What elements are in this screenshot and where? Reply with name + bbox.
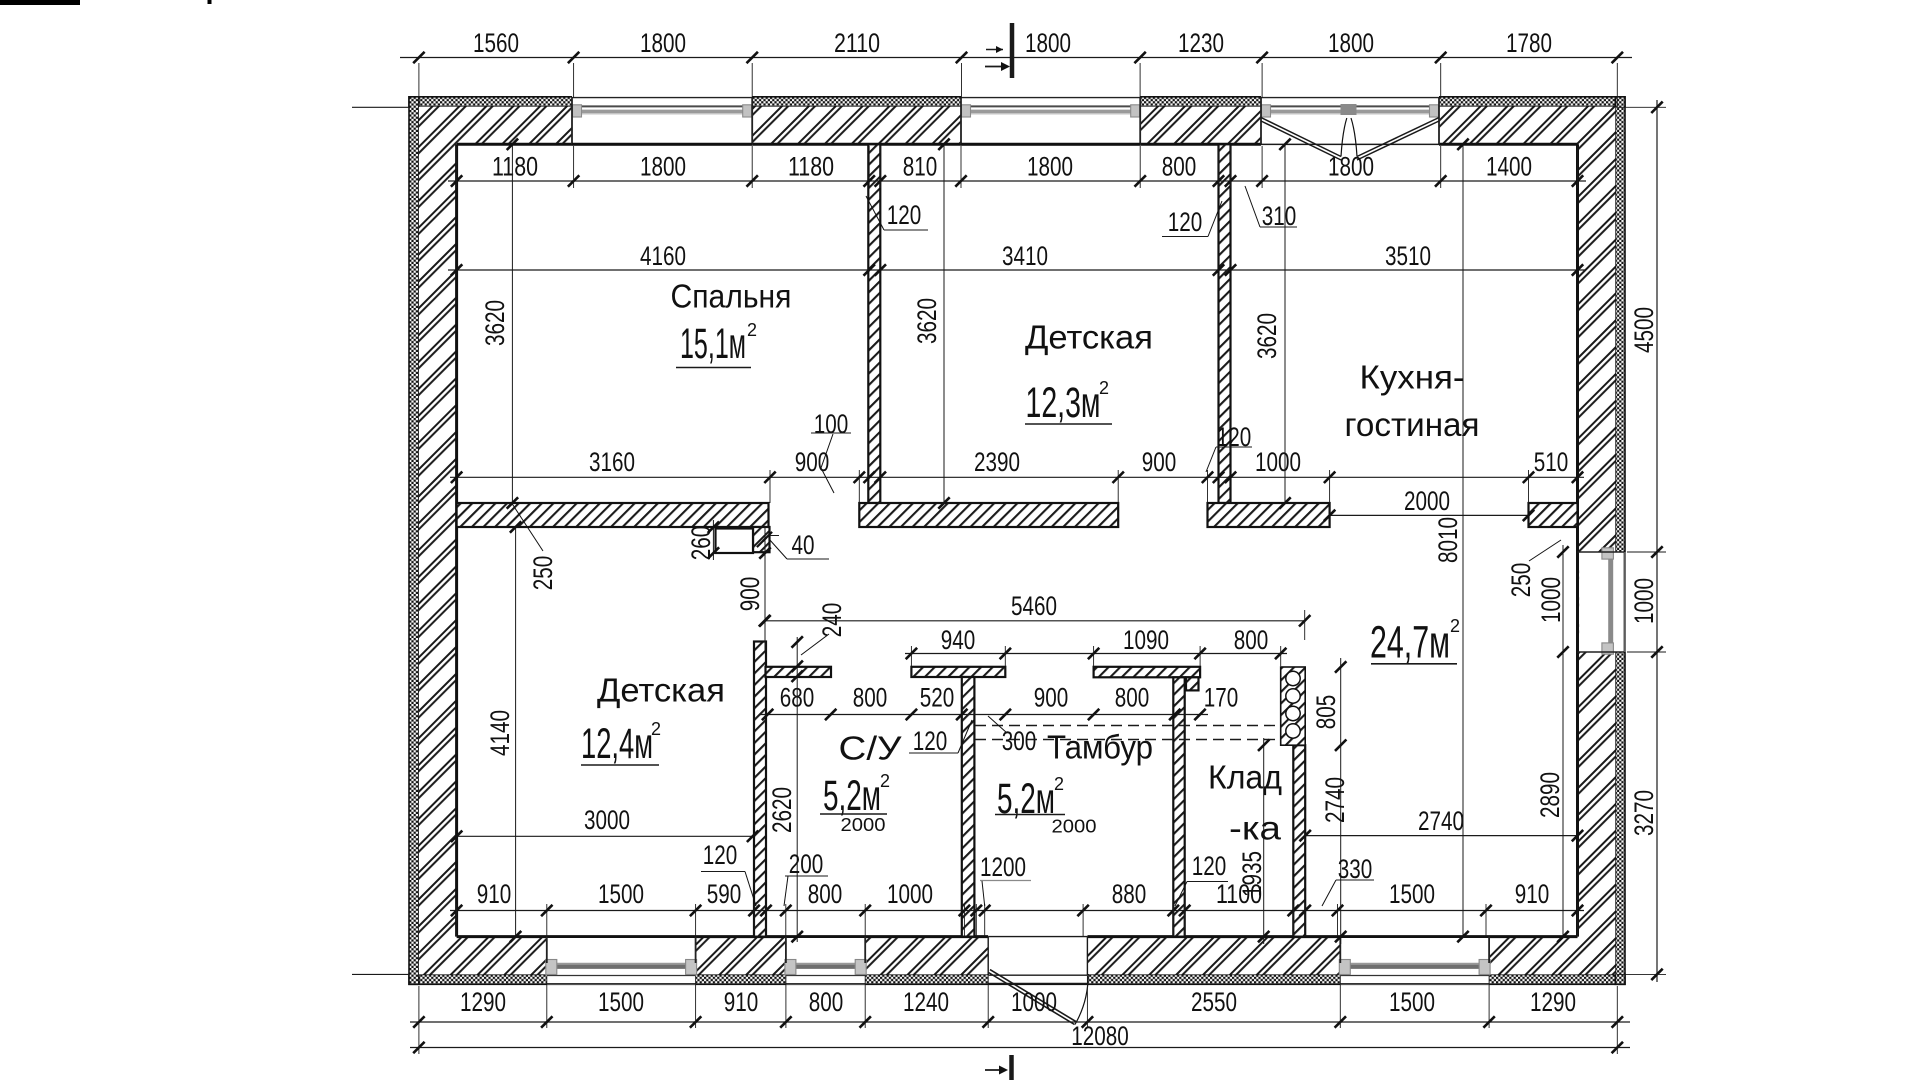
wall: WC top right (940) <box>911 667 1005 677</box>
window: right wall (1000) <box>1579 552 1625 652</box>
svg-text:2890: 2890 <box>1535 772 1565 818</box>
svg-text:900: 900 <box>1142 447 1177 477</box>
wall: vestibule top (1090) <box>1094 667 1201 678</box>
svg-text:810: 810 <box>903 152 938 182</box>
svg-text:гостиная: гостиная <box>1345 406 1480 443</box>
dimension: 3000 child room 2 <box>457 835 753 837</box>
svg-text:1180: 1180 <box>492 152 538 182</box>
wall: below bedroom (H1a) <box>457 503 769 527</box>
svg-text:2740: 2740 <box>1418 806 1464 836</box>
wall: storeroom/kitchen (120) <box>1293 745 1305 936</box>
svg-text:5,2м: 5,2м <box>823 772 881 820</box>
dimension: 2740 kitchen horizontal <box>1305 835 1577 837</box>
svg-text:880: 880 <box>1112 879 1147 909</box>
window: bottom small (800) <box>786 938 865 985</box>
svg-text:2: 2 <box>747 320 757 340</box>
svg-text:1180: 1180 <box>788 152 834 182</box>
svg-text:Тамбур: Тамбур <box>1047 729 1153 766</box>
wall: WC top left (680) <box>766 667 832 677</box>
svg-text:1000: 1000 <box>1255 447 1301 477</box>
duct dashed lines through vestibule <box>975 725 1281 727</box>
svg-text:12080: 12080 <box>1071 1021 1129 1051</box>
left side reference lines <box>352 106 409 108</box>
right side extension lines <box>1617 106 1666 108</box>
wall: hall/kitchen (H1c) <box>1208 503 1330 527</box>
vertical dim: 2620 WC and 240 top piece <box>796 637 798 942</box>
svg-text:2: 2 <box>651 719 661 739</box>
exterior wall: outer insulation band (stipple) <box>409 97 1625 107</box>
svg-text:2: 2 <box>1099 378 1109 398</box>
window: bedroom top (1800) <box>572 96 752 146</box>
svg-text:С/У: С/У <box>839 730 903 767</box>
svg-text:Кухня-: Кухня- <box>1360 359 1465 396</box>
svg-text:2740: 2740 <box>1320 777 1350 823</box>
wall: child room/kitchen (120) <box>1219 144 1231 503</box>
svg-text:3510: 3510 <box>1385 241 1431 271</box>
svg-text:1240: 1240 <box>903 987 949 1017</box>
svg-text:1500: 1500 <box>598 879 644 909</box>
window: child room top (1800) <box>961 96 1140 146</box>
wall stub above corridor door (260) <box>753 527 770 552</box>
svg-text:1000: 1000 <box>1536 577 1566 623</box>
svg-text:2: 2 <box>880 771 890 791</box>
vertical dim: 900 corridor door <box>764 527 766 650</box>
wall: vestibule/storeroom (120) <box>1173 677 1184 936</box>
dimension chain: top row 2 <box>448 180 1586 182</box>
vertical dim: 3620 kitchen <box>1284 144 1286 503</box>
interior face line: right <box>1576 144 1579 936</box>
svg-text:900: 900 <box>795 447 830 477</box>
svg-text:2000: 2000 <box>1404 486 1450 516</box>
svg-text:120: 120 <box>887 200 922 230</box>
svg-text:300: 300 <box>1002 726 1037 756</box>
dimension: 2000 kitchen passage <box>1330 514 1529 516</box>
dimension: overall 12080 <box>410 1047 1630 1049</box>
svg-text:1290: 1290 <box>1530 987 1576 1017</box>
svg-text:4160: 4160 <box>640 241 686 271</box>
svg-text:Детская: Детская <box>597 672 725 709</box>
svg-text:800: 800 <box>1234 625 1269 655</box>
svg-text:Детская: Детская <box>1025 319 1153 356</box>
svg-text:240: 240 <box>817 603 847 638</box>
svg-text:2000: 2000 <box>1052 816 1097 837</box>
vertical dim: 4140 child room 2 <box>515 527 517 937</box>
vertical dim: 3620 child room <box>943 144 945 503</box>
svg-text:4500: 4500 <box>1629 307 1659 353</box>
entrance door opening (1000) bottom <box>988 935 1087 984</box>
dimension chain: top row 3 (room widths) <box>448 269 1586 271</box>
svg-text:8010: 8010 <box>1433 517 1463 563</box>
wall: child2/WC (120) <box>754 642 766 937</box>
svg-text:1400: 1400 <box>1486 152 1532 182</box>
svg-text:2550: 2550 <box>1191 987 1237 1017</box>
svg-text:3000: 3000 <box>584 805 630 835</box>
svg-text:3620: 3620 <box>912 298 942 344</box>
svg-text:24,7м: 24,7м <box>1370 617 1450 668</box>
svg-text:1000: 1000 <box>1629 578 1659 624</box>
svg-text:900: 900 <box>735 577 765 612</box>
vertical dim: window 1000 inner / 2890 <box>1562 545 1564 937</box>
svg-text:120: 120 <box>913 726 948 756</box>
svg-text:1090: 1090 <box>1123 625 1169 655</box>
svg-text:1800: 1800 <box>1025 28 1071 58</box>
svg-text:1800: 1800 <box>640 152 686 182</box>
dimension chain: bottom row 1 <box>410 1021 1630 1023</box>
svg-text:40: 40 <box>792 530 815 560</box>
interior face line: left <box>455 144 458 936</box>
svg-text:200: 200 <box>789 849 824 879</box>
svg-text:940: 940 <box>941 625 976 655</box>
dimension row: WC interior (y=714.5) <box>760 714 1208 716</box>
svg-text:800: 800 <box>1115 683 1150 713</box>
window: child room 2 bottom (1500) <box>547 938 696 985</box>
svg-text:1560: 1560 <box>473 28 519 58</box>
svg-text:3410: 3410 <box>1002 241 1048 271</box>
svg-text:12,4м: 12,4м <box>581 720 653 768</box>
svg-text:910: 910 <box>1515 879 1550 909</box>
svg-text:3620: 3620 <box>480 300 510 346</box>
svg-text:2620: 2620 <box>767 787 797 833</box>
svg-text:1500: 1500 <box>598 987 644 1017</box>
svg-text:910: 910 <box>724 987 759 1017</box>
svg-text:805: 805 <box>1311 695 1341 730</box>
svg-text:15,1м: 15,1м <box>680 320 746 368</box>
svg-text:120: 120 <box>1192 851 1227 881</box>
section mark top <box>1010 23 1015 78</box>
dimension: 5460 corridor <box>764 620 1305 622</box>
svg-text:2110: 2110 <box>834 28 880 58</box>
svg-text:1000: 1000 <box>887 879 933 909</box>
svg-text:1800: 1800 <box>640 28 686 58</box>
svg-text:1935: 1935 <box>1237 851 1267 897</box>
wall: bedroom/child room (120) <box>868 144 880 503</box>
svg-text:5460: 5460 <box>1011 591 1057 621</box>
svg-text:1800: 1800 <box>1328 28 1374 58</box>
balcony door center post <box>1341 104 1357 115</box>
svg-text:120: 120 <box>703 840 738 870</box>
svg-text:3270: 3270 <box>1629 790 1659 836</box>
vertical dim: 805 / 2740 boiler line <box>1340 658 1342 944</box>
svg-text:1000: 1000 <box>1011 987 1057 1017</box>
dimension chain: mid row (y=477) <box>450 476 1584 478</box>
balcony door leaves <box>1261 118 1341 157</box>
svg-text:100: 100 <box>814 409 849 439</box>
svg-text:170: 170 <box>1204 683 1239 713</box>
window: kitchen bottom (1500) <box>1340 938 1489 985</box>
svg-text:-ка: -ка <box>1229 810 1282 847</box>
dimension chain: bottom interior row (y=910.5) <box>450 910 1584 912</box>
page artifact: small tick top <box>208 0 212 4</box>
svg-text:1290: 1290 <box>460 987 506 1017</box>
svg-text:910: 910 <box>477 879 512 909</box>
svg-text:1800: 1800 <box>1328 152 1374 182</box>
svg-text:900: 900 <box>1034 683 1069 713</box>
svg-text:250: 250 <box>1506 563 1536 598</box>
svg-text:800: 800 <box>809 987 844 1017</box>
svg-text:1780: 1780 <box>1506 28 1552 58</box>
vertical dim chain right: 4500/1000/3270 <box>1656 100 1658 982</box>
svg-text:1200: 1200 <box>980 852 1026 882</box>
interior face line: top <box>457 143 1578 146</box>
interior face line: bottom <box>457 935 989 938</box>
svg-text:1230: 1230 <box>1178 28 1224 58</box>
dimension row: WC/vestibule top walls (y=653.5) <box>905 653 1287 655</box>
exterior wall: structural ring with masonry hatch <box>419 107 1615 975</box>
section mark bottom <box>1009 1055 1014 1080</box>
ventilation niche box at corridor <box>716 529 754 554</box>
svg-text:1500: 1500 <box>1389 987 1435 1017</box>
svg-text:250: 250 <box>528 556 558 591</box>
svg-text:2: 2 <box>1054 774 1064 794</box>
svg-text:4140: 4140 <box>485 710 515 756</box>
wall: kitchen stub right (H1d) <box>1529 503 1578 527</box>
svg-text:5,2м: 5,2м <box>997 775 1055 823</box>
dimension chain: top row 1 (overall) <box>400 57 1632 59</box>
entrance door leaf <box>989 973 1075 1025</box>
vertical dim: 1935 storeroom <box>1263 738 1265 944</box>
svg-text:120: 120 <box>1168 207 1203 237</box>
svg-text:Клад: Клад <box>1208 759 1282 796</box>
svg-text:3160: 3160 <box>589 447 635 477</box>
balcony door: kitchen top (1800) <box>1261 96 1439 146</box>
svg-text:520: 520 <box>920 683 955 713</box>
entrance door swing arc <box>1075 974 1088 1025</box>
page artifact: black bar top-left <box>0 0 80 5</box>
svg-text:1500: 1500 <box>1389 879 1435 909</box>
svg-text:2000: 2000 <box>841 814 886 835</box>
vertical dim: 3620 bedroom <box>511 144 513 503</box>
svg-text:260: 260 <box>686 526 716 561</box>
svg-text:1800: 1800 <box>1027 152 1073 182</box>
svg-text:510: 510 <box>1534 447 1569 477</box>
wall nib at storeroom corner <box>1186 677 1199 690</box>
svg-text:800: 800 <box>808 879 843 909</box>
svg-text:800: 800 <box>853 683 888 713</box>
boiler/heater unit box <box>1281 667 1306 745</box>
vertical dim: 260 stub <box>712 520 714 560</box>
vertical dim: 8010 kitchen <box>1462 144 1464 936</box>
wall: WC/vestibule (120) <box>962 677 975 937</box>
wall: below child room (H1b) <box>859 503 1118 527</box>
svg-text:2390: 2390 <box>974 447 1020 477</box>
svg-text:Спальня: Спальня <box>671 278 792 315</box>
svg-text:12,3м: 12,3м <box>1026 379 1101 427</box>
svg-text:590: 590 <box>707 879 742 909</box>
svg-text:800: 800 <box>1162 152 1197 182</box>
svg-text:2: 2 <box>1450 616 1460 636</box>
svg-text:3620: 3620 <box>1252 313 1282 359</box>
